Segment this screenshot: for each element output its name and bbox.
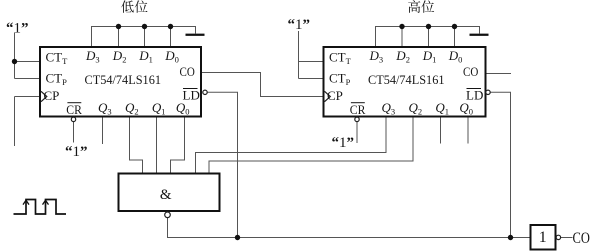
svg-text:CP: CP (44, 88, 60, 103)
svg-text:CP: CP (327, 88, 343, 103)
svg-text:“1”: “1” (6, 21, 29, 37)
svg-text:&: & (160, 187, 172, 203)
svg-text:“1”: “1” (332, 135, 355, 151)
svg-text:CO: CO (180, 64, 195, 79)
svg-text:CR: CR (66, 102, 82, 117)
svg-text:“1”: “1” (288, 17, 311, 33)
svg-text:CO: CO (463, 64, 478, 79)
svg-text:CT54/74LS161: CT54/74LS161 (85, 72, 162, 87)
svg-text:“1”: “1” (65, 144, 88, 160)
svg-text:CR: CR (350, 102, 366, 117)
svg-text:1: 1 (539, 229, 547, 246)
svg-text:CO: CO (573, 230, 590, 247)
svg-text:CT54/74LS161: CT54/74LS161 (368, 72, 445, 87)
